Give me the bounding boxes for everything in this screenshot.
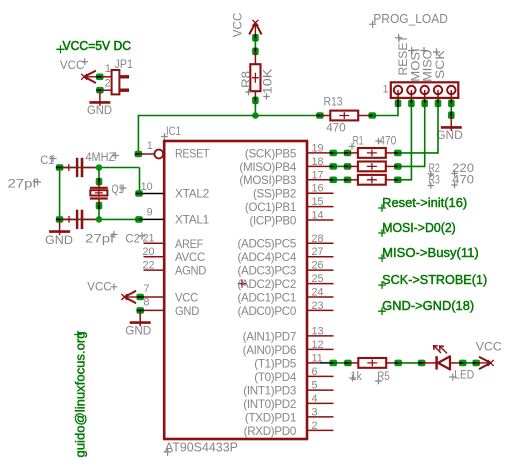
- node junction crystal top: [96, 164, 103, 171]
- node IC pin pad on row R3: [329, 177, 337, 184]
- pin 27 stub: [307, 256, 334, 258]
- node R13 pin 1 pad: [316, 112, 324, 119]
- pin 13 stub: [307, 335, 334, 337]
- svg-text:VCC: VCC: [231, 13, 245, 38]
- wire crystal top lead: [98, 168, 100, 182]
- pin 21 stub: [144, 242, 165, 244]
- pin 14 stub: [307, 219, 334, 221]
- pin 8 GND stub: [140, 309, 164, 311]
- node R5 pin 2 pad: [394, 360, 402, 367]
- pin 19 stub: [307, 152, 334, 154]
- resistor R2 220: [348, 162, 398, 172]
- node R3 pin 2 pad: [394, 177, 402, 184]
- svg-text:14: 14: [312, 210, 324, 222]
- power symbol VCC above R8: [249, 20, 261, 38]
- node IC pin pad on row R2: [329, 163, 337, 170]
- connector PROG_LOAD pin 5 circle and stub: [447, 86, 455, 104]
- resistor R5 1k: [348, 358, 398, 368]
- svg-text:(SCK)PB5: (SCK)PB5: [245, 147, 296, 160]
- svg-text:(T1)PD5: (T1)PD5: [254, 357, 296, 370]
- wire R13 to PROG_LOAD pin 1 corner: [372, 115, 398, 117]
- wire up to PROG_LOAD pin 1: [397, 103, 399, 117]
- node pin 9 pad: [135, 216, 143, 223]
- node VCC pad above R8: [252, 34, 259, 42]
- pin 22 stub: [144, 269, 165, 271]
- node LED anode pad: [459, 360, 467, 367]
- svg-text:(INT1)PD3: (INT1)PD3: [243, 384, 296, 397]
- label VCC=5V DC: [56, 45, 64, 53]
- svg-text:27: 27: [312, 246, 324, 258]
- wire vertical to PROG_LOAD: [437, 103, 439, 154]
- svg-text:27pf: 27pf: [8, 177, 38, 191]
- ground symbol at PROG_LOAD pin 5: [441, 116, 462, 131]
- svg-text:21: 21: [142, 233, 154, 245]
- svg-text:470: 470: [379, 133, 396, 147]
- node pin 7 pad: [136, 294, 144, 301]
- svg-text:11: 11: [312, 352, 323, 364]
- svg-text:(MISO)PB4: (MISO)PB4: [239, 161, 296, 174]
- svg-text:1: 1: [382, 83, 388, 95]
- note text GND->GND(18): [378, 307, 386, 315]
- node pad left rail bottom: [56, 216, 64, 223]
- svg-text:1: 1: [147, 140, 153, 152]
- svg-text:(OC1)PB1: (OC1)PB1: [245, 201, 296, 214]
- svg-text:(TXD)PD1: (TXD)PD1: [245, 411, 296, 424]
- pin 2 stub: [307, 429, 334, 431]
- connector PROG_LOAD pin 3 circle and stub: [421, 86, 429, 104]
- note text MISO->Busy(11): [378, 254, 386, 262]
- node JP1 pin 1 pad: [96, 74, 104, 81]
- note text SCK->STROBE(1): [378, 281, 386, 289]
- svg-text:JP1: JP1: [115, 57, 134, 71]
- pin 1 RESET stub with inversion bubble: [138, 150, 163, 159]
- pin 12 stub: [307, 348, 334, 350]
- svg-text:Reset->init(16): Reset->init(16): [382, 196, 467, 210]
- svg-text:PROG_LOAD: PROG_LOAD: [373, 12, 448, 26]
- wire left rail C1-C2: [59, 167, 61, 221]
- svg-text:13: 13: [312, 325, 324, 337]
- IC name label IC1: [161, 133, 168, 140]
- svg-text:RESET: RESET: [175, 147, 209, 160]
- pin 4 stub: [307, 402, 334, 404]
- svg-text:25: 25: [312, 273, 324, 285]
- pin 18 stub: [307, 165, 334, 167]
- connector PROG_LOAD pin 2 circle and stub: [407, 86, 415, 104]
- svg-text:AREF: AREF: [175, 238, 203, 251]
- wire pin to R3: [333, 179, 347, 181]
- node IC pin 11 pad: [329, 360, 337, 367]
- connector PROG_LOAD pin 1 circle and stub: [394, 86, 402, 104]
- svg-text:SCK: SCK: [433, 49, 447, 79]
- node pad left rail top: [56, 164, 64, 171]
- svg-text:15: 15: [312, 196, 324, 208]
- wire RESET net down to IC pin 1: [137, 115, 139, 154]
- wire VCC pad to R8 top: [254, 38, 256, 52]
- crystal Q1 4MHz: [90, 182, 108, 206]
- svg-text:18: 18: [312, 156, 324, 168]
- node JP1 pin 2 pad: [96, 87, 104, 94]
- svg-text:R8: R8: [239, 71, 253, 88]
- svg-text:VCC=5V DC: VCC=5V DC: [63, 38, 132, 53]
- connector PROG_LOAD pin 4 circle and stub: [434, 86, 442, 104]
- svg-text:LED: LED: [454, 367, 474, 381]
- node junction R8 / RESET net: [252, 112, 259, 119]
- pin 7 VCC stub: [140, 296, 164, 298]
- pin 23 stub: [307, 309, 334, 311]
- node R3 pin 1 pad: [344, 177, 352, 184]
- IC value label AT90S4433P: [164, 448, 172, 456]
- svg-text:28: 28: [312, 233, 324, 245]
- svg-text:(RXD)PD0: (RXD)PD0: [244, 425, 296, 438]
- wire XTAL2 net top row: [60, 167, 140, 169]
- wire R1 to header column: [398, 152, 438, 154]
- svg-text:5: 5: [312, 380, 318, 392]
- svg-text:2: 2: [312, 420, 318, 432]
- svg-text:17: 17: [312, 169, 324, 181]
- power symbol VCC arrow right (LED): [476, 357, 494, 369]
- wire crystal top to XTAL2 pin: [139, 168, 141, 194]
- capacitor C1 27pf: [61, 158, 98, 177]
- svg-text:26: 26: [312, 260, 324, 272]
- pin 24 stub: [307, 296, 334, 298]
- wire R3 to header column: [398, 179, 412, 181]
- svg-text:3: 3: [312, 406, 318, 418]
- svg-text:GND: GND: [87, 103, 112, 117]
- pin 20 stub: [144, 256, 165, 258]
- svg-text:R1: R1: [353, 133, 364, 147]
- svg-text:1: 1: [105, 63, 111, 75]
- svg-text:(ADC0)PC0: (ADC0)PC0: [237, 305, 296, 318]
- pin 17 stub: [307, 179, 334, 181]
- wire XTAL1 net bottom row: [60, 218, 140, 220]
- svg-text:(ADC5)PC5: (ADC5)PC5: [237, 238, 296, 251]
- node R5 pin 1 pad: [344, 360, 352, 367]
- IC1 origin cross marker: [238, 279, 246, 287]
- node PROG_LOAD pin 4 pad: [435, 100, 442, 108]
- svg-text:MISO->Busy(11): MISO->Busy(11): [382, 246, 479, 260]
- svg-text:24: 24: [312, 287, 324, 299]
- node junction crystal bottom: [96, 216, 103, 223]
- pin 15 stub: [307, 206, 334, 208]
- svg-text:XTAL1: XTAL1: [175, 214, 209, 227]
- LED diode symbol: [422, 356, 463, 369]
- wire RESET net horizontal left segment: [138, 115, 320, 117]
- connector PROG_LOAD body: [391, 82, 459, 98]
- svg-text:19: 19: [312, 142, 324, 154]
- note text Reset->init(16): [378, 204, 386, 212]
- svg-text:(ADC4)PC4: (ADC4)PC4: [237, 251, 296, 264]
- node R1 pin 2 pad: [394, 150, 402, 157]
- pin 11 stub: [307, 362, 320, 364]
- note text MOSI->D0(2): [378, 229, 386, 237]
- wire PROG_LOAD pin 5 to GND: [450, 103, 452, 115]
- node IC pin pad on row R1: [329, 150, 337, 157]
- op-amp U1 substitute: IC1 body AT90S4433: [164, 141, 307, 439]
- resistor R3 470: [348, 175, 398, 185]
- node R8 pin 2 pad: [252, 97, 259, 105]
- svg-text:VCC: VCC: [476, 340, 502, 354]
- pin 6 stub: [307, 375, 334, 377]
- node PROG_LOAD pin 3 pad: [421, 100, 428, 108]
- resistor R1 470: [348, 148, 398, 158]
- wire pin 11 to R5: [333, 362, 348, 364]
- node PROG_LOAD pin 5 pad: [448, 100, 455, 108]
- connector JP1 body: [101, 70, 129, 94]
- svg-text:AGND: AGND: [175, 265, 206, 278]
- ground symbol at IC pin 8: [130, 311, 151, 326]
- wire LED to VCC: [463, 362, 477, 364]
- svg-text:(MOSI)PB3: (MOSI)PB3: [239, 174, 296, 187]
- wire vertical to PROG_LOAD: [410, 103, 412, 181]
- svg-text:AT90S4433P: AT90S4433P: [165, 440, 238, 454]
- wire R8 bottom to RESET net: [254, 100, 256, 115]
- wire vertical to PROG_LOAD: [424, 103, 426, 167]
- svg-text:MOSI->D0(2): MOSI->D0(2): [382, 221, 456, 235]
- svg-text:(T0)PD4: (T0)PD4: [254, 371, 297, 384]
- svg-text:guido@linuxfocus.org: guido@linuxfocus.org: [73, 332, 88, 458]
- svg-text:(INT0)PD2: (INT0)PD2: [243, 398, 296, 411]
- node LED cathode pad: [418, 360, 426, 367]
- svg-text:R13: R13: [324, 95, 343, 109]
- svg-text:(AIN0)PD6: (AIN0)PD6: [243, 344, 296, 357]
- svg-text:10K: 10K: [260, 69, 274, 95]
- svg-text:(ADC1)PC1: (ADC1)PC1: [237, 291, 296, 304]
- node GND pad at PROG_LOAD pin 5: [448, 111, 455, 119]
- resistor R13 470: [320, 111, 370, 121]
- pin 9 XTAL1 stub: [139, 218, 164, 220]
- pin 25 stub: [307, 283, 334, 285]
- svg-text:7: 7: [143, 283, 149, 295]
- pin 10 XTAL2 stub: [139, 193, 164, 195]
- connector SV1 name label PROG_LOAD: [369, 21, 376, 28]
- pin 3 stub: [307, 416, 334, 418]
- svg-text:(SS)PB2: (SS)PB2: [253, 188, 296, 201]
- svg-text:(ADC3)PC3: (ADC3)PC3: [237, 265, 296, 278]
- ground symbol below left rail: [49, 220, 70, 235]
- svg-text:VCC: VCC: [87, 279, 111, 293]
- ground symbol below JP1 pin 2: [89, 91, 110, 106]
- wire crystal bottom lead: [98, 206, 100, 220]
- svg-text:4MHZ: 4MHZ: [86, 150, 116, 164]
- pin 26 stub: [307, 269, 334, 271]
- svg-text:GND: GND: [125, 323, 151, 337]
- svg-text:20: 20: [142, 246, 154, 258]
- node IC pin 1 pad: [135, 151, 143, 158]
- svg-text:C2: C2: [125, 232, 140, 246]
- capacitor C2 27pf: [61, 210, 98, 229]
- pin 28 stub: [307, 242, 334, 244]
- node pin 8 pad: [136, 307, 144, 314]
- svg-text:(AIN1)PD7: (AIN1)PD7: [243, 330, 296, 343]
- svg-text:Q1: Q1: [112, 182, 124, 196]
- svg-text:470: 470: [326, 121, 346, 135]
- svg-text:GND: GND: [45, 233, 73, 247]
- node crystal pin 1 pad: [96, 178, 103, 186]
- svg-text:12: 12: [312, 339, 324, 351]
- svg-text:6: 6: [312, 366, 318, 378]
- svg-text:2: 2: [105, 78, 111, 90]
- svg-text:8: 8: [143, 297, 149, 309]
- wire R2 to header column: [398, 165, 425, 167]
- node pin 10 pad: [135, 190, 143, 197]
- node PROG_LOAD pin 2 pad: [408, 100, 415, 108]
- svg-text:IC1: IC1: [166, 124, 181, 138]
- svg-text:4: 4: [312, 393, 318, 405]
- svg-text:C1: C1: [40, 153, 54, 167]
- node VCC pad (LED): [472, 360, 480, 367]
- node crystal pin 2 pad: [96, 202, 103, 210]
- svg-text:23: 23: [312, 300, 324, 312]
- wire pin to R2: [333, 165, 347, 167]
- wire pin to R1: [333, 152, 347, 154]
- node R2 pin 1 pad: [344, 163, 352, 170]
- svg-text:(ICP)PB0: (ICP)PB0: [249, 214, 296, 227]
- svg-text:GND: GND: [436, 128, 463, 142]
- svg-text:9: 9: [147, 207, 153, 219]
- svg-text:27pf: 27pf: [85, 232, 115, 246]
- svg-text:22: 22: [142, 260, 154, 272]
- svg-text:XTAL2: XTAL2: [175, 188, 209, 201]
- svg-text:(ADC2)PC2: (ADC2)PC2: [237, 278, 296, 291]
- svg-text:GND->GND(18): GND->GND(18): [382, 299, 474, 313]
- svg-text:VCC: VCC: [60, 58, 85, 72]
- node R13 pin 2 pad: [368, 112, 376, 119]
- svg-text:GND: GND: [175, 305, 199, 318]
- resistor R8 10K vertical: [250, 51, 260, 100]
- pin 16 stub: [307, 192, 334, 194]
- node R1 pin 1 pad: [344, 150, 352, 157]
- power symbol VCC arrow at JP1 pin 1: [81, 71, 100, 83]
- LED emission arrows: [434, 346, 447, 354]
- power symbol VCC arrow at IC pin 7: [121, 291, 139, 303]
- svg-text:10: 10: [141, 181, 153, 193]
- svg-text:AVCC: AVCC: [175, 251, 205, 264]
- node PROG_LOAD pin 1 pad: [395, 100, 402, 108]
- node R2 pin 2 pad: [394, 163, 402, 170]
- node R8 pin 1 pad: [252, 48, 259, 56]
- wire R5 to LED: [398, 362, 421, 364]
- svg-text:VCC: VCC: [175, 292, 198, 305]
- svg-text:SCK->STROBE(1): SCK->STROBE(1): [382, 273, 487, 287]
- svg-text:16: 16: [312, 183, 324, 195]
- pin 5 stub: [307, 389, 334, 391]
